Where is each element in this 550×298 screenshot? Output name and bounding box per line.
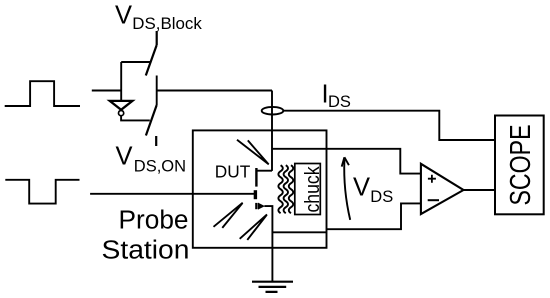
wire input 1 to switch control node — [92, 90, 121, 92]
wire control node vertical — [120, 62, 122, 100]
svg-text:Probe: Probe — [119, 207, 189, 235]
wire amp output to scope — [463, 189, 495, 191]
svg-text:Station: Station — [102, 237, 190, 265]
probe needle source — [240, 214, 267, 240]
svg-text:V: V — [116, 143, 133, 171]
switch S1 V_DS,Block terminal — [156, 31, 158, 45]
svg-text:DS: DS — [370, 188, 393, 206]
wire control to top switch lever — [121, 61, 150, 63]
switch S1 lever — [146, 45, 157, 76]
probe needle gate — [214, 203, 243, 228]
chuck box — [295, 164, 321, 215]
probe needle drain — [237, 140, 269, 165]
op-amp minus — [428, 199, 439, 201]
wire source lead down to ground — [264, 206, 272, 282]
op-amp U2 — [421, 164, 464, 214]
wavy line 1 — [278, 165, 282, 213]
wavy line 3 — [289, 165, 293, 213]
transistor DUT: channel segment source — [255, 203, 257, 209]
wire gate lead — [90, 193, 255, 195]
wire inverter output to bottom switch lever — [121, 116, 150, 121]
scope box — [495, 116, 544, 215]
pulse source waveform 2 (gate pulse) — [5, 180, 79, 204]
svg-text:DUT: DUT — [215, 162, 251, 182]
wavy line 2 — [284, 165, 288, 213]
wire I_DS sense to scope — [283, 111, 494, 140]
wire V_DS sense bottom to amp - input — [327, 203, 421, 229]
switch S2 lever — [146, 105, 157, 136]
pulse source waveform 1 (gate-drive blocking pulse) — [5, 81, 80, 106]
probe station box — [193, 130, 327, 247]
switch S2 V_DS,ON terminal — [155, 136, 157, 146]
svg-text:DS,ON: DS,ON — [134, 158, 186, 176]
svg-text:DS: DS — [328, 93, 351, 111]
svg-text:V: V — [115, 1, 132, 29]
transistor DUT: drain lead — [257, 170, 272, 172]
chuck platform box bottom edge — [272, 231, 327, 233]
op-amp plus — [428, 175, 436, 183]
svg-text:V: V — [353, 174, 370, 202]
transistor DUT: source arrow — [258, 203, 265, 210]
current probe CT1 — [262, 107, 284, 115]
transistor DUT: gate bar — [254, 190, 257, 199]
svg-text:SCOPE: SCOPE — [505, 125, 537, 206]
ground — [252, 282, 293, 292]
chuck platform box top edge + V_DS sense wire to amp + input — [272, 149, 421, 174]
transistor DUT: channel segment drain — [255, 168, 257, 187]
V_DS arc arrow — [344, 160, 350, 220]
wire drain feed down to DUT — [271, 91, 273, 171]
svg-text:DS,Block: DS,Block — [132, 15, 202, 33]
wire switch pole to drain feed — [157, 90, 272, 92]
wire switch pole — [156, 76, 158, 106]
inverter U1 — [110, 101, 133, 116]
svg-text:chuck: chuck — [302, 166, 324, 213]
